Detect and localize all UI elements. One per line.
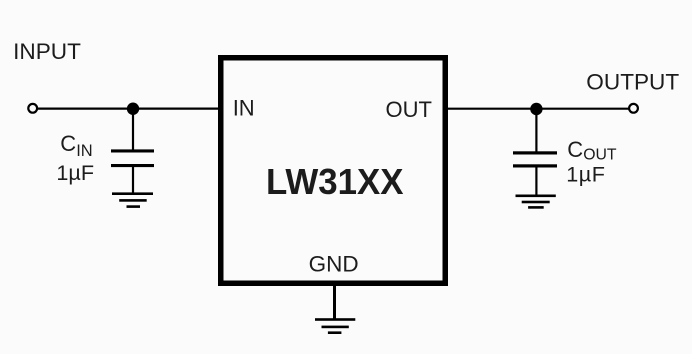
svg-text:IN: IN — [233, 95, 255, 120]
svg-text:GND: GND — [309, 252, 359, 277]
svg-text:OUT: OUT — [386, 97, 432, 122]
ground left — [112, 192, 153, 208]
svg-text:LW31XX: LW31XX — [266, 161, 404, 202]
capacitor C_IN — [111, 149, 154, 167]
wire CIN bottom plate to ground — [132, 167, 134, 194]
junction output node — [530, 103, 542, 115]
wire OUT pin to output terminal — [448, 108, 629, 110]
IC U1 LW31XX — [221, 58, 446, 284]
svg-text:INPUT: INPUT — [13, 39, 81, 64]
svg-text:OUTPUT: OUTPUT — [586, 70, 679, 95]
node input terminal — [28, 104, 37, 113]
wire junction to COUT top plate — [535, 109, 537, 153]
node output terminal — [629, 104, 638, 113]
wire input terminal to IN pin — [38, 107, 218, 109]
wire GND pin to ground — [333, 286, 336, 319]
wire COUT bottom plate to ground — [535, 168, 537, 196]
ground bottom — [315, 318, 355, 334]
wire junction to CIN top plate — [132, 109, 134, 150]
svg-text:1µF: 1µF — [56, 160, 94, 185]
ground right — [516, 195, 556, 209]
capacitor C_OUT — [513, 151, 557, 167]
svg-text:1µF: 1µF — [566, 162, 605, 187]
junction input node — [127, 103, 139, 115]
